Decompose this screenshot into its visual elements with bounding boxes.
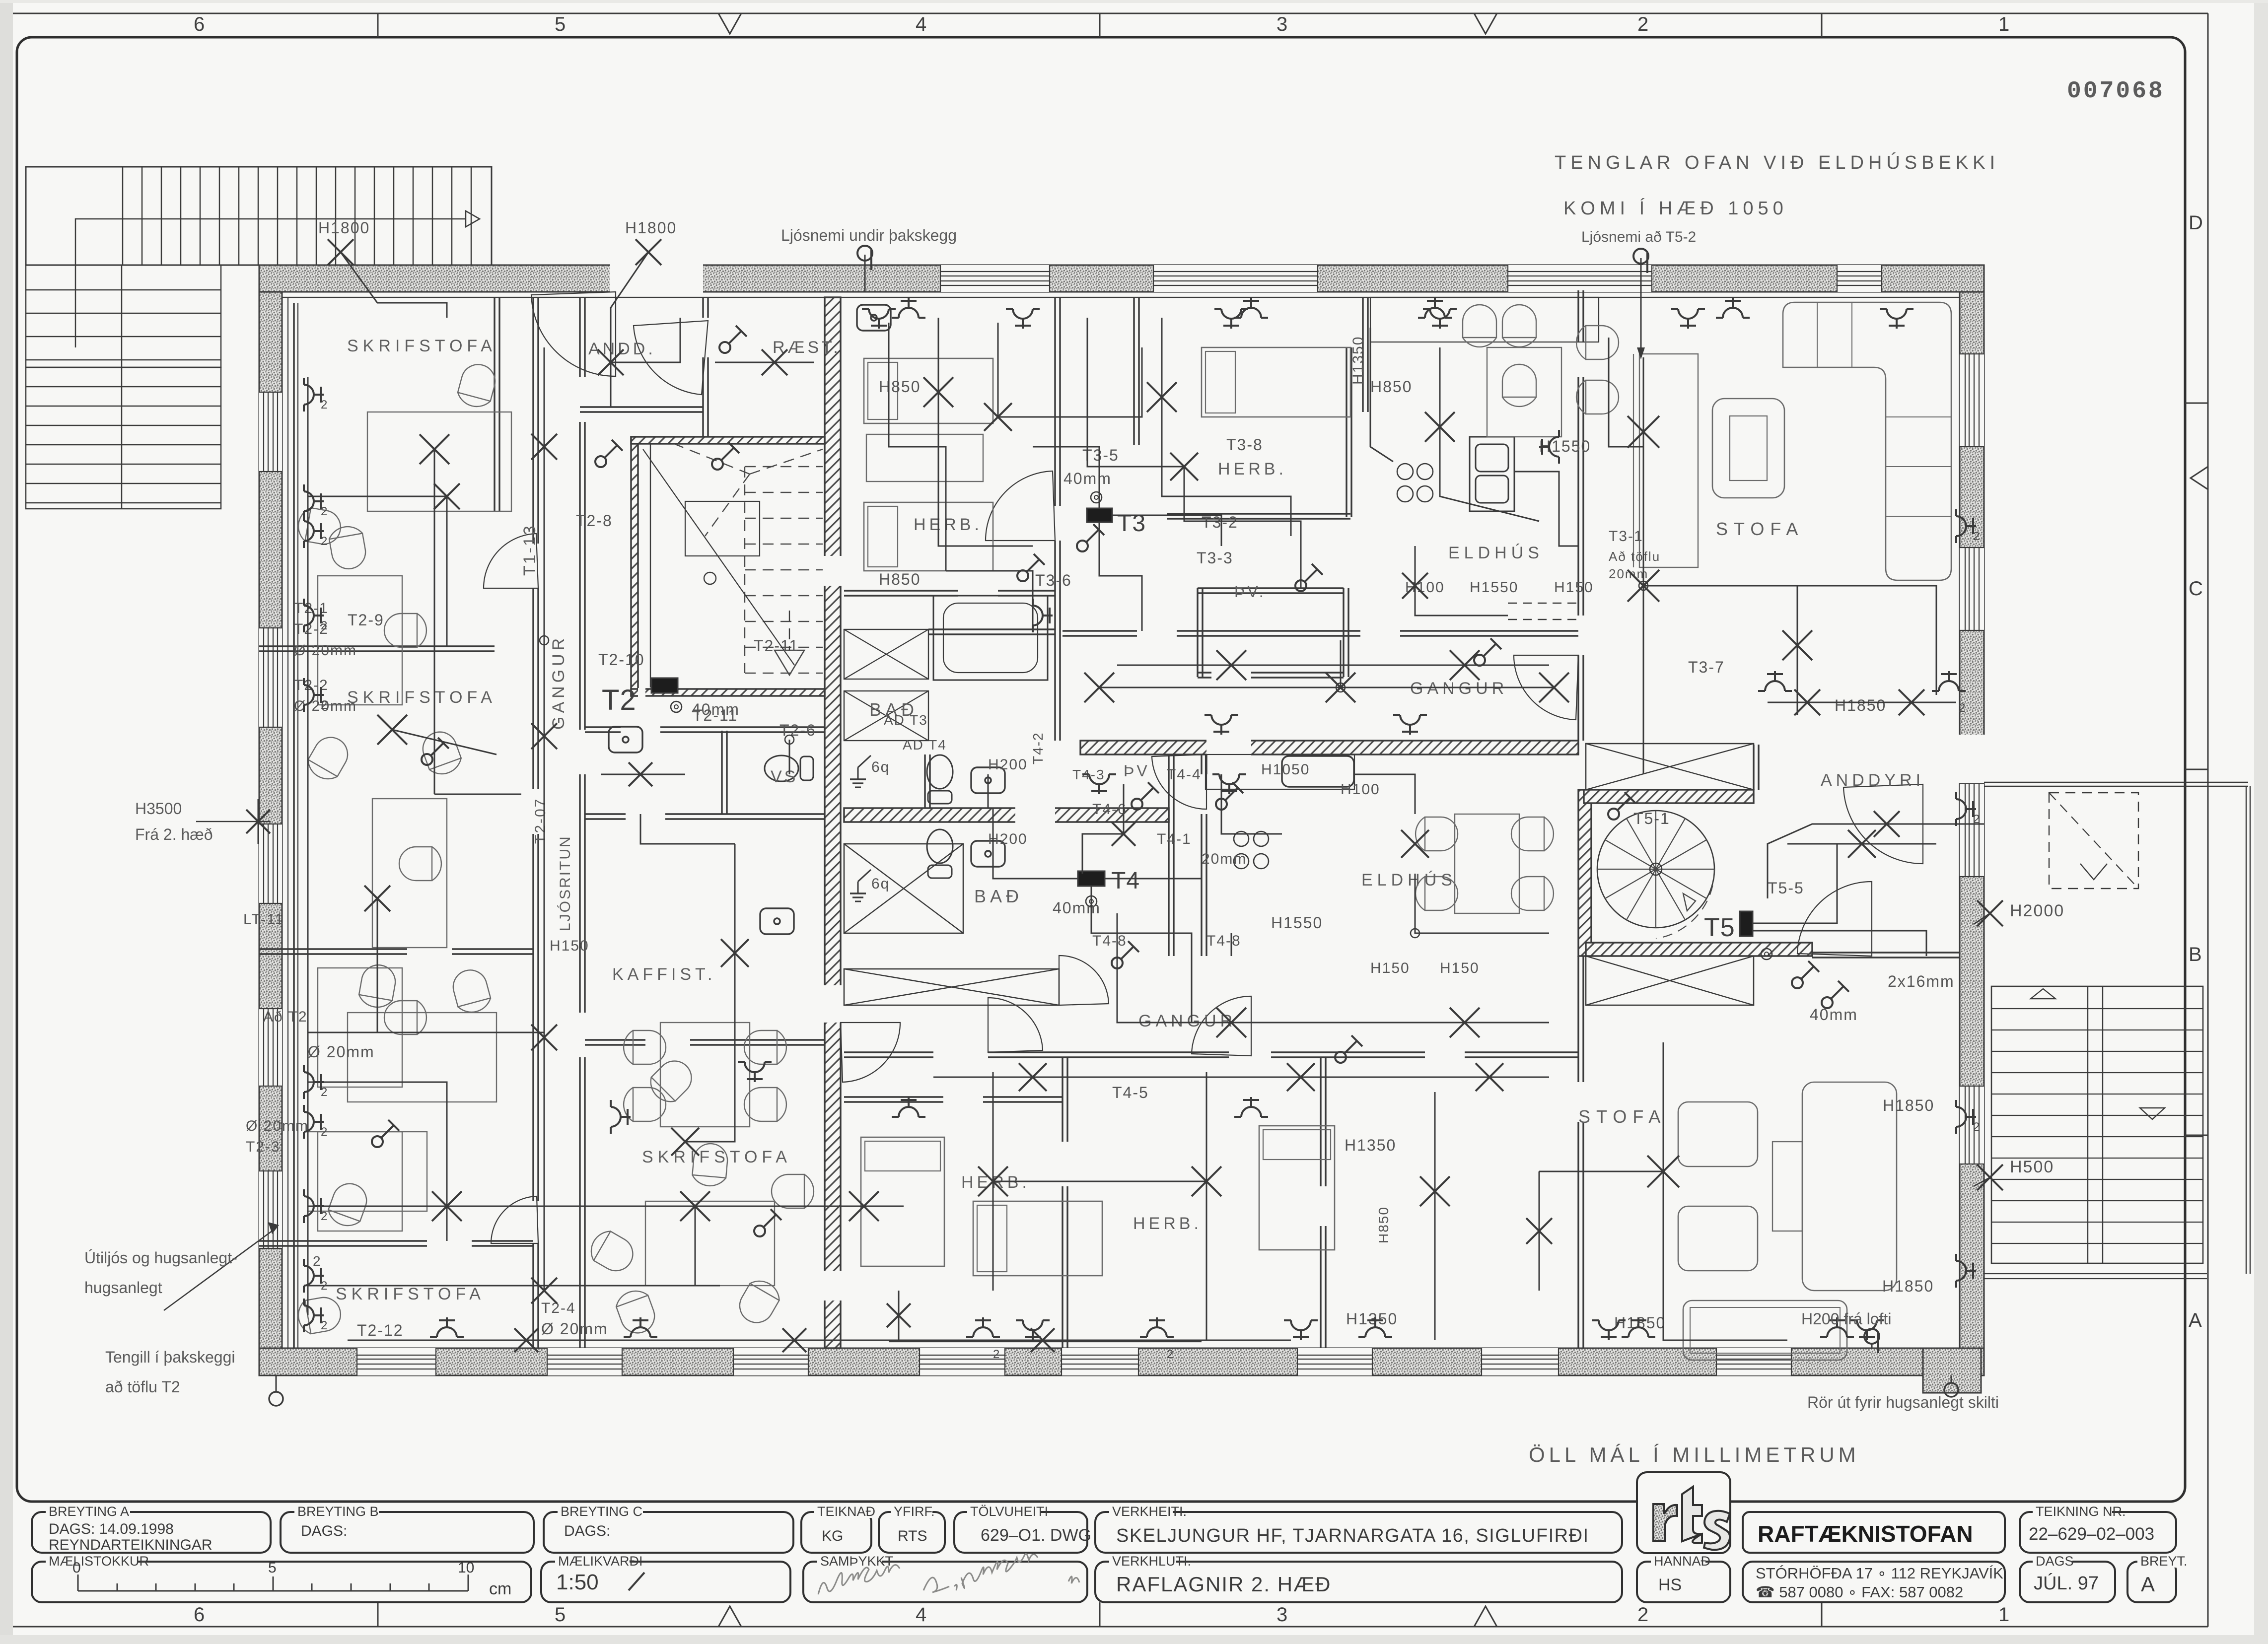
svg-text:H850: H850	[1370, 378, 1413, 396]
svg-text:629–O1. DWG: 629–O1. DWG	[981, 1526, 1091, 1545]
central dividing wall (hatched)	[825, 297, 841, 1348]
ANDDYRI walls	[1812, 952, 1960, 953]
right top apartment partitions	[1054, 297, 1056, 506]
svg-text:H1850: H1850	[1883, 1096, 1934, 1114]
svg-text:H150: H150	[1440, 960, 1480, 976]
svg-text:T2-3: T2-3	[246, 1139, 281, 1155]
svg-text:TENGLAR OFAN VIÐ ELDHÚSBEKK: TENGLAR OFAN VIÐ ELDHÚSBEKKI	[1555, 152, 1999, 173]
svg-text:VS: VS	[771, 767, 798, 786]
svg-text:H200: H200	[988, 756, 1028, 773]
lamp H2000 right wall	[1977, 900, 2003, 926]
wiring mid office	[308, 1285, 720, 1287]
svg-text:DAGS:: DAGS:	[564, 1523, 610, 1539]
svg-text:2: 2	[1973, 530, 1980, 543]
KAFFIST walls	[585, 1039, 645, 1040]
svg-text:ÖLL MÁL Í MILLIMETRUM: ÖLL MÁL Í MILLIMETRUM	[1529, 1443, 1860, 1466]
svg-text:T4-1: T4-1	[1157, 831, 1192, 847]
distribution board T5	[1740, 911, 1753, 936]
wiring bottom wall	[348, 1340, 1291, 1341]
wiring bottom stofa 2 more	[1663, 1291, 1787, 1340]
svg-text:4: 4	[916, 13, 926, 35]
row letters right	[2189, 212, 2203, 1331]
svg-text:ELDHÚS: ELDHÚS	[1448, 544, 1544, 562]
PV room top apartment	[1197, 588, 1198, 677]
svg-text:T4-2: T4-2	[1030, 732, 1046, 764]
svg-text:H150: H150	[1554, 579, 1594, 596]
kitchen 1 fixtures	[1470, 437, 1514, 511]
svg-text:H1800: H1800	[318, 219, 370, 237]
ground symbols 6q	[858, 755, 871, 767]
svg-text:Frá 2. hæð: Frá 2. hæð	[135, 825, 213, 843]
svg-text:2: 2	[993, 1348, 999, 1361]
svg-text:H150: H150	[1370, 960, 1410, 976]
distribution board T4	[1078, 871, 1105, 886]
svg-text:cm: cm	[489, 1579, 511, 1598]
svg-text:AD T4: AD T4	[903, 737, 947, 753]
shaft left of stair core 1	[844, 969, 1059, 1005]
svg-text:STOFA: STOFA	[1578, 1106, 1666, 1127]
svg-text:SKRIFSTOFA: SKRIFSTOFA	[642, 1148, 791, 1166]
svg-text:MÆLIKVARÐI: MÆLIKVARÐI	[558, 1554, 643, 1569]
svg-text:BREYTING C: BREYTING C	[561, 1504, 642, 1519]
svg-text:2: 2	[1973, 1120, 1980, 1134]
svg-text:Ljósnemi undir þakskegg: Ljósnemi undir þakskegg	[781, 226, 957, 244]
wiring office room 1	[307, 377, 309, 1315]
svg-text:H100: H100	[1341, 781, 1380, 798]
light sensor T5-2	[1633, 249, 1648, 264]
svg-text:HERB.: HERB.	[1218, 460, 1287, 479]
svg-text:5: 5	[555, 13, 566, 35]
svg-text:C: C	[2189, 578, 2203, 600]
svg-text:2: 2	[1637, 13, 1648, 35]
svg-text:2x16mm: 2x16mm	[1888, 972, 1955, 990]
svg-text:VERKHEITI.: VERKHEITI.	[1112, 1504, 1187, 1519]
svg-text:6: 6	[194, 1604, 205, 1626]
svg-text:ÞV: ÞV	[1124, 762, 1150, 780]
svg-text:2: 2	[321, 1279, 327, 1293]
kitchen 2 fixtures	[1282, 756, 1354, 787]
svg-text:22–629–02–003: 22–629–02–003	[2029, 1524, 2154, 1544]
svg-text:ÞV.: ÞV.	[1234, 583, 1266, 601]
svg-text:H850: H850	[1376, 1206, 1391, 1243]
outlet below bottom-left wall	[269, 1392, 283, 1406]
svg-text:DAGS: 14.09.1998: DAGS: 14.09.1998	[49, 1521, 174, 1537]
svg-text:Ø 20mm: Ø 20mm	[294, 642, 357, 659]
svg-text:40mm: 40mm	[692, 700, 740, 718]
svg-text:REYNDARTEIKNINGAR: REYNDARTEIKNINGAR	[49, 1537, 213, 1553]
svg-text:H850: H850	[879, 378, 921, 396]
svg-text:GANGUR: GANGUR	[1410, 679, 1508, 698]
svg-text:1:50: 1:50	[556, 1570, 599, 1594]
shaft boxes left of BAD 1	[844, 629, 928, 679]
H3500 junction left wall	[246, 810, 270, 833]
wiring top apartment corridor	[1117, 665, 1549, 666]
conduit ring T4	[1086, 896, 1097, 907]
svg-text:2: 2	[321, 1086, 327, 1099]
wiring middle apartment kitchen	[1221, 774, 1282, 834]
svg-text:T1-13: T1-13	[520, 524, 539, 576]
wiring corridor left	[544, 347, 545, 1291]
svg-text:BREYT.: BREYT.	[2140, 1554, 2188, 1569]
conduit ring T3	[1091, 492, 1102, 503]
wiring offices pass2	[434, 794, 521, 795]
distribution board T2	[651, 678, 678, 693]
wiring top apartment	[938, 318, 1033, 546]
svg-text:3: 3	[1276, 13, 1287, 35]
wiring corridor 2 row	[1099, 687, 1554, 688]
wall sockets interior	[1033, 599, 1053, 632]
svg-text:H500: H500	[2010, 1158, 2054, 1176]
svg-text:2: 2	[1637, 1604, 1648, 1626]
svg-text:2: 2	[321, 1210, 327, 1223]
svg-text:MÆLISTOKKUR: MÆLISTOKKUR	[49, 1554, 149, 1569]
svg-text:BREYTING B: BREYTING B	[297, 1504, 379, 1519]
wiring H1850 row top right	[1768, 702, 1956, 703]
wall sockets left wall	[304, 378, 324, 411]
svg-text:Ø 20mm: Ø 20mm	[246, 1118, 309, 1134]
svg-text:H1350: H1350	[1350, 336, 1366, 385]
office desks bottom-left	[325, 1179, 371, 1230]
svg-text:H3500: H3500	[135, 800, 182, 818]
svg-text:RAFLAGNIR 2. HÆÐ: RAFLAGNIR 2. HÆÐ	[1116, 1573, 1331, 1596]
svg-text:T5: T5	[1704, 913, 1735, 942]
svg-text:BAÐ: BAÐ	[974, 886, 1023, 906]
svg-text:AD T3: AD T3	[884, 712, 928, 728]
svg-text:2: 2	[313, 1253, 322, 1269]
svg-text:H150: H150	[550, 938, 589, 954]
dashed landing right side	[2049, 793, 2138, 889]
svg-text:H200 frá lofti: H200 frá lofti	[1801, 1310, 1891, 1328]
svg-text:T3-7: T3-7	[1688, 658, 1725, 676]
outer wall bottom band with windows	[259, 1348, 1984, 1375]
svg-text:40mm: 40mm	[1810, 1006, 1858, 1024]
svg-text:T2-9: T2-9	[348, 611, 384, 629]
svg-text:T2-07: T2-07	[532, 798, 549, 844]
wc fixtures left section	[765, 755, 813, 781]
svg-text:6q: 6q	[871, 759, 890, 775]
svg-text:A: A	[2189, 1309, 2202, 1331]
wiring anddyri	[1787, 843, 1936, 845]
outer wall corner block bottom-right	[1923, 1348, 1981, 1393]
svg-text:20mm: 20mm	[1609, 566, 1648, 581]
svg-text:BREYTING A: BREYTING A	[49, 1504, 129, 1519]
wiring top apartment 1 web	[889, 323, 946, 571]
wiring kaffist	[685, 844, 735, 1142]
shaft with cross bracing below spiral stair	[1586, 956, 1754, 1005]
svg-text:ANDDYRI: ANDDYRI	[1821, 771, 1924, 790]
svg-text:VERKHLUTI.: VERKHLUTI.	[1112, 1554, 1191, 1569]
VS and WC rooms	[585, 726, 621, 728]
sockets along bottom wall rooms	[430, 1317, 464, 1337]
svg-text:H1800: H1800	[625, 219, 677, 237]
svg-text:T3-3: T3-3	[1197, 549, 1233, 567]
svg-text:HANNAÐ: HANNAÐ	[1654, 1554, 1710, 1569]
svg-text:6q: 6q	[871, 876, 890, 892]
svg-text:20mm: 20mm	[1202, 851, 1247, 867]
wiring stofa bottom	[1663, 1042, 1664, 1291]
more chairs mid office	[644, 1054, 698, 1107]
svg-text:2: 2	[321, 698, 327, 712]
svg-text:2: 2	[321, 535, 327, 548]
junction circles on wires	[540, 636, 549, 645]
wall sockets top apartments	[892, 298, 925, 318]
svg-text:GANGUR: GANGUR	[1138, 1012, 1236, 1030]
svg-text:T4: T4	[1111, 868, 1140, 894]
svg-text:Rör út fyrir hugsanlegt sk: Rör út fyrir hugsanlegt skilti	[1807, 1393, 1999, 1411]
svg-text:D: D	[2189, 212, 2203, 234]
svg-text:2: 2	[1959, 701, 1965, 715]
svg-text:SAMÞYKKT: SAMÞYKKT	[820, 1554, 893, 1569]
stair core 2 walls (hatched)	[1578, 790, 1591, 956]
svg-text:SKRIFSTOFA: SKRIFSTOFA	[347, 337, 496, 355]
shaft with cross bracing above spiral stair	[1586, 744, 1754, 790]
svg-text:YFIRF.: YFIRF.	[894, 1504, 935, 1519]
svg-text:SKELJUNGUR HF, TJARNARGATA: SKELJUNGUR HF, TJARNARGATA 16, SIGLUFIRÐ…	[1116, 1525, 1589, 1546]
svg-text:H1350: H1350	[1345, 1136, 1396, 1154]
svg-text:H200: H200	[988, 831, 1028, 847]
outer wall top band with windows	[259, 265, 1984, 292]
sideboard stofa top-right	[1639, 354, 1698, 567]
ANDD / RAEST partition	[702, 297, 704, 318]
wiring T4 tails	[1091, 886, 1192, 1023]
svg-text:SKRIFSTOFA: SKRIFSTOFA	[336, 1285, 485, 1303]
apartment corridor lower wall	[1063, 630, 1137, 631]
L-sofa stofa top-right	[1783, 302, 1951, 580]
kitchen 2 table and chairs	[1416, 817, 1458, 851]
sensor bottom right H200	[1864, 1329, 1879, 1344]
svg-text:Að T2: Að T2	[263, 1009, 308, 1025]
kaffist table and chairs	[660, 1023, 750, 1127]
svg-text:T5-5: T5-5	[1768, 879, 1804, 897]
office ceiling lamps left column	[307, 448, 309, 450]
svg-text:TEIKNAÐ: TEIKNAÐ	[817, 1504, 875, 1519]
conduit ring T5	[1761, 949, 1772, 959]
svg-text:2: 2	[1167, 1348, 1173, 1361]
svg-text:DAGS:: DAGS:	[301, 1523, 347, 1539]
svg-text:Ø 20mm: Ø 20mm	[541, 1320, 608, 1338]
lamp H500 right wall	[1977, 1164, 2003, 1190]
switch symbols extra	[719, 326, 747, 353]
svg-text:hugsanlegt: hugsanlegt	[84, 1279, 162, 1297]
sofa group stofa bottom-right	[1683, 1301, 1847, 1360]
coffee table stofa top-right	[1712, 399, 1784, 498]
svg-text:T3-8: T3-8	[1226, 436, 1263, 454]
svg-text:T2-4: T2-4	[541, 1300, 576, 1316]
building inner face lines	[282, 297, 1960, 298]
pendant symbols under corridor wall	[1082, 774, 1116, 794]
svg-text:Að töflu: Að töflu	[1609, 549, 1660, 564]
stair core storage lines	[643, 449, 794, 665]
beds top middle apartment	[864, 358, 993, 423]
column numbers top	[194, 13, 2009, 35]
office desks and chairs top-left	[367, 412, 511, 511]
BAD 1 walls	[844, 590, 958, 591]
svg-text:B: B	[2189, 944, 2202, 965]
svg-text:H1850: H1850	[1882, 1277, 1934, 1295]
svg-text:1: 1	[1998, 1604, 2009, 1626]
svg-text:4: 4	[916, 1604, 926, 1626]
distribution board T3	[1087, 508, 1112, 522]
svg-text:007068: 007068	[2067, 78, 2165, 105]
svg-text:10: 10	[458, 1560, 474, 1576]
svg-text:☎ 587 0080 ∘ FAX: 587: ☎ 587 0080 ∘ FAX: 587 0082	[1756, 1583, 1963, 1601]
svg-text:KOMI Í HÆÐ 1050: KOMI Í HÆÐ 1050	[1563, 198, 1788, 219]
svg-text:5: 5	[268, 1560, 277, 1576]
svg-text:H850: H850	[879, 570, 921, 588]
apartment corridor wall (hatched)	[1080, 741, 1578, 754]
svg-text:RAFTÆKNISTOFAN: RAFTÆKNISTOFAN	[1758, 1521, 1973, 1547]
svg-text:T4-8: T4-8	[1092, 933, 1127, 949]
svg-text:HERB.: HERB.	[1133, 1214, 1202, 1233]
stair walk-line arrow	[75, 219, 466, 347]
svg-text:H1350: H1350	[1346, 1310, 1398, 1328]
svg-text:Ljósnemi að T5-2: Ljósnemi að T5-2	[1581, 229, 1696, 245]
svg-text:STÓRHÖFÐA 17 ∘ 112 REYKJA: STÓRHÖFÐA 17 ∘ 112 REYKJAVÍK	[1756, 1565, 2003, 1582]
wiring entrance ANDD	[610, 328, 612, 407]
exterior staircase bottom-right	[1991, 986, 2203, 1263]
svg-text:að töflu T2: að töflu T2	[105, 1378, 180, 1396]
door arcs	[531, 292, 616, 376]
svg-text:LT-11: LT-11	[243, 911, 284, 928]
stair direction arrow down	[775, 650, 804, 675]
conduit ring T2	[671, 701, 682, 712]
svg-text:T3-6: T3-6	[1035, 571, 1072, 589]
svg-text:HS: HS	[1658, 1575, 1682, 1594]
svg-text:2: 2	[321, 505, 327, 518]
wiring anddyri T5	[1753, 844, 1837, 923]
svg-text:1: 1	[1998, 13, 2009, 35]
svg-text:H1850: H1850	[1835, 696, 1886, 714]
wiring bath 2 and pv2	[988, 774, 989, 808]
bath 1 fixtures	[933, 596, 1048, 680]
svg-text:HERB.: HERB.	[914, 515, 983, 534]
svg-text:T2-11: T2-11	[754, 637, 799, 655]
column numbers bottom	[194, 1604, 2009, 1626]
left section partition walls	[494, 297, 495, 511]
svg-text:Ø 20mm: Ø 20mm	[308, 1043, 375, 1061]
winding staircase (dashed treads)	[675, 444, 823, 673]
svg-text:H1050: H1050	[1261, 761, 1310, 778]
spiral staircase	[1597, 811, 1714, 928]
wiring kaffist VS	[640, 814, 735, 844]
bottom HERB partitions	[844, 1096, 943, 1097]
wiring bottom rooms	[993, 1181, 1206, 1182]
svg-text:2: 2	[321, 619, 327, 632]
svg-text:STOFA: STOFA	[1716, 519, 1804, 539]
svg-text:TEIKNING NR.: TEIKNING NR.	[2036, 1504, 2126, 1519]
sockets along top wall rooms	[862, 309, 896, 329]
beds bottom middle apartment	[861, 1137, 944, 1266]
switches	[595, 440, 623, 467]
wiring T3 board tails	[1099, 522, 1142, 631]
svg-text:JÚL. 97: JÚL. 97	[2034, 1573, 2099, 1594]
svg-text:H1550: H1550	[1470, 579, 1518, 596]
svg-text:A: A	[2141, 1573, 2155, 1596]
outer wall right band with windows	[1960, 292, 1984, 1348]
svg-text:T5-1: T5-1	[1633, 810, 1670, 827]
svg-text:H2000: H2000	[2010, 901, 2064, 920]
office desks mid-right	[645, 1201, 775, 1286]
svg-text:T2-8: T2-8	[576, 512, 613, 530]
svg-text:TÖLVUHEITI: TÖLVUHEITI	[970, 1504, 1048, 1519]
svg-text:DAGS: DAGS	[2036, 1554, 2074, 1569]
svg-text:T2-2: T2-2	[294, 677, 329, 693]
svg-text:H1850: H1850	[1614, 1314, 1666, 1332]
middle apartment partitions	[924, 754, 925, 808]
exterior staircase top-left	[26, 167, 492, 509]
svg-text:T4-8: T4-8	[1206, 933, 1241, 949]
svg-text:0: 0	[72, 1560, 81, 1576]
svg-text:Útiljós og hugsanlegt-: Útiljós og hugsanlegt-	[84, 1249, 237, 1267]
svg-text:Tengill í þakskeggi: Tengill í þakskeggi	[105, 1348, 235, 1366]
wiring middle apartment	[1117, 913, 1549, 1023]
svg-text:T4-6: T4-6	[1092, 801, 1127, 818]
svg-text:3: 3	[1276, 1604, 1287, 1626]
svg-text:T2-12: T2-12	[357, 1321, 404, 1339]
svg-text:T2-10: T2-10	[598, 651, 645, 669]
svg-text:6: 6	[194, 13, 205, 35]
railing right side	[1984, 782, 2248, 783]
svg-text:T2-6: T2-6	[780, 721, 816, 739]
svg-text:T4-5: T4-5	[1112, 1084, 1149, 1101]
svg-text:KAFFIST.: KAFFIST.	[612, 965, 716, 984]
svg-text:40mm: 40mm	[1063, 470, 1112, 487]
svg-text:SKRIFSTOFA: SKRIFSTOFA	[347, 688, 496, 707]
svg-text:T4-4: T4-4	[1167, 766, 1202, 783]
svg-text:2: 2	[321, 1319, 327, 1332]
svg-text:40mm: 40mm	[1053, 899, 1101, 917]
svg-text:ELDHÚS: ELDHÚS	[1361, 871, 1457, 890]
long cross wire office	[308, 1206, 904, 1207]
svg-text:KG: KG	[822, 1528, 843, 1544]
svg-text:T3: T3	[1117, 510, 1146, 537]
sensor rör út	[1944, 1383, 1958, 1397]
svg-text:LJÓSRITUN: LJÓSRITUN	[557, 835, 573, 931]
office desks row win	[318, 576, 402, 705]
svg-text:T2: T2	[602, 684, 637, 716]
middle apartment wall (hatched)	[844, 808, 1169, 822]
svg-text:T3-1: T3-1	[1609, 528, 1643, 545]
wiring gangur 3 row	[933, 1077, 1549, 1078]
kitchen 1 table and chairs	[1502, 305, 1536, 347]
wiring left offices	[341, 252, 447, 318]
stair core 1 walls (hatched)	[631, 437, 638, 696]
corridor walls left section	[532, 297, 534, 544]
svg-text:HERB.: HERB.	[961, 1173, 1030, 1192]
wiring stofa 1 more	[1609, 338, 1643, 447]
svg-text:5: 5	[555, 1604, 566, 1626]
svg-text:H1550: H1550	[1271, 914, 1323, 932]
outer wall left band with windows	[259, 292, 282, 1348]
wiring stofa top	[1643, 357, 1644, 720]
svg-text:GANGUR: GANGUR	[549, 635, 568, 730]
svg-text:RTS: RTS	[898, 1528, 927, 1544]
light sensor top wall	[857, 246, 872, 261]
office desks second room	[348, 1013, 496, 1102]
svg-text:2: 2	[321, 398, 327, 411]
wiring kitchen 1	[1370, 328, 1393, 462]
svg-text:2: 2	[321, 1125, 327, 1139]
